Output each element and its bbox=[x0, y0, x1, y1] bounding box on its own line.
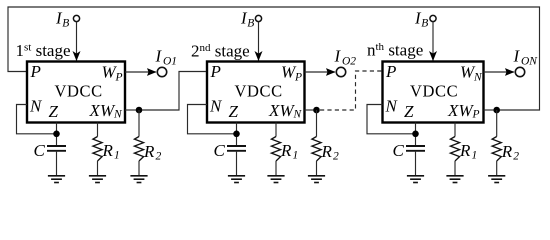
current source terminal I_B (stage 1) bbox=[73, 15, 79, 21]
ground (C stage 3) bbox=[407, 176, 424, 183]
capacitor C (stage 1) bbox=[47, 146, 66, 151]
svg-text:R: R bbox=[102, 141, 114, 160]
resistor R1 (stage 2) bbox=[271, 137, 280, 162]
svg-text:R: R bbox=[280, 141, 292, 160]
svg-text:R: R bbox=[459, 141, 471, 160]
svg-text:nth stage: nth stage bbox=[367, 41, 423, 60]
wire W_N output to terminal I_ON (stage 3) bbox=[484, 71, 514, 73]
svg-text:N: N bbox=[209, 97, 223, 116]
node Z junction (stage 3) bbox=[412, 131, 419, 138]
svg-text:P: P bbox=[472, 109, 480, 121]
ground (R2 stage 2) bbox=[308, 176, 325, 183]
svg-text:P: P bbox=[294, 72, 302, 84]
svg-text:P: P bbox=[385, 62, 396, 81]
node Z junction (stage 2) bbox=[233, 131, 240, 138]
svg-text:O1: O1 bbox=[163, 56, 177, 68]
svg-text:1st stage: 1st stage bbox=[16, 41, 71, 60]
capacitor C (stage 2) bbox=[227, 146, 246, 151]
ground (R2 stage 3) bbox=[488, 176, 505, 183]
wire stage1 W_N junction to stage2 P bbox=[142, 72, 206, 111]
wire N terminal loop to Z node (stage 2) bbox=[188, 105, 237, 134]
wire W_N output (stage 1) bbox=[125, 109, 139, 111]
wire feedback top (last stage W_P output to 1st stage P) bbox=[8, 7, 540, 110]
wire capacitor to ground (stage 3) bbox=[415, 151, 417, 176]
svg-text:C: C bbox=[214, 141, 226, 160]
svg-text:2: 2 bbox=[513, 151, 519, 163]
current source terminal I_B (stage 2) bbox=[255, 15, 261, 21]
svg-text:Z: Z bbox=[404, 102, 414, 121]
wire I_B to block top with arrow (stage 3) bbox=[432, 22, 434, 61]
svg-text:B: B bbox=[247, 18, 254, 30]
svg-text:X: X bbox=[268, 101, 280, 120]
wire W_N output (stage 2) bbox=[305, 109, 317, 111]
output terminal circle I_ON (stage 3) bbox=[515, 67, 524, 76]
svg-text:C: C bbox=[34, 141, 46, 160]
svg-text:2: 2 bbox=[333, 151, 339, 163]
wire I_B to block top with arrow (stage 2) bbox=[258, 22, 260, 61]
ground (R1 stage 3) bbox=[446, 176, 463, 183]
node W_P junction (stage 3) bbox=[493, 107, 500, 114]
svg-text:R: R bbox=[321, 142, 333, 161]
wire R2 to ground (stage 3) bbox=[496, 161, 498, 176]
ground (R1 stage 2) bbox=[267, 176, 284, 183]
resistor R2 (stage 2) bbox=[312, 137, 321, 162]
svg-text:P: P bbox=[210, 62, 221, 81]
svg-text:1: 1 bbox=[472, 150, 478, 162]
svg-text:N: N bbox=[29, 97, 43, 116]
ground (C stage 2) bbox=[228, 176, 245, 183]
wire capacitor to ground (stage 1) bbox=[56, 151, 58, 176]
ground (R1 stage 1) bbox=[89, 176, 106, 183]
wire X terminal down (stage 3) bbox=[454, 123, 456, 137]
wire R1 to ground (stage 1) bbox=[97, 161, 99, 176]
svg-text:N: N bbox=[113, 109, 123, 121]
wire W_P output to terminal I_O1 (stage 1) bbox=[125, 71, 156, 73]
svg-text:N: N bbox=[293, 109, 303, 121]
ground (C stage 1) bbox=[48, 176, 65, 183]
capacitor C (stage 3) bbox=[406, 146, 425, 151]
wire Z terminal down (stage 3) bbox=[415, 123, 417, 147]
resistor R1 (stage 1) bbox=[93, 137, 102, 162]
resistor R2 (stage 1) bbox=[134, 137, 143, 162]
svg-text:Z: Z bbox=[229, 102, 239, 121]
svg-text:N: N bbox=[385, 97, 399, 116]
svg-text:B: B bbox=[62, 18, 69, 30]
svg-text:VDCC: VDCC bbox=[55, 82, 103, 101]
current source terminal I_B (stage 3) bbox=[430, 15, 436, 21]
wire N terminal loop to Z node (stage 3) bbox=[367, 105, 416, 134]
wire I_B to block top with arrow (stage 1) bbox=[76, 22, 78, 61]
node Z junction (stage 1) bbox=[53, 131, 60, 138]
wire R2 to ground (stage 2) bbox=[316, 161, 318, 176]
svg-text:O2: O2 bbox=[342, 56, 356, 68]
svg-text:ON: ON bbox=[521, 56, 538, 68]
resistor R2 (stage 3) bbox=[492, 137, 501, 162]
svg-text:X: X bbox=[89, 101, 101, 120]
svg-text:B: B bbox=[421, 18, 428, 30]
wire X terminal down (stage 1) bbox=[97, 123, 99, 137]
wire junction down to R2 (stage 3) bbox=[496, 110, 498, 137]
op-amp U2 VDCC block stage 2 bbox=[207, 62, 305, 123]
wire R1 to ground (stage 2) bbox=[275, 161, 277, 176]
svg-text:VDCC: VDCC bbox=[410, 82, 458, 101]
svg-text:P: P bbox=[30, 62, 41, 81]
op-amp U1 VDCC block stage 1 bbox=[27, 62, 125, 123]
wire Z terminal down (stage 1) bbox=[56, 123, 58, 147]
node W_N junction (stage 1) bbox=[136, 107, 143, 114]
output terminal circle I_O2 (stage 2) bbox=[336, 67, 345, 76]
svg-text:R: R bbox=[143, 142, 155, 161]
node W_N junction (stage 2) bbox=[313, 107, 320, 114]
wire W_P output to terminal I_O2 (stage 2) bbox=[305, 71, 335, 73]
wire R2 to ground (stage 1) bbox=[138, 161, 140, 176]
wire W_P output (stage 3) bbox=[484, 109, 497, 111]
wire N terminal loop to Z node (stage 1) bbox=[17, 105, 57, 134]
wire junction down to R2 (stage 1) bbox=[138, 110, 140, 137]
svg-text:R: R bbox=[501, 142, 513, 161]
svg-text:1: 1 bbox=[114, 150, 120, 162]
svg-text:P: P bbox=[115, 72, 123, 84]
wire Z terminal down (stage 2) bbox=[236, 123, 238, 147]
op-amp U3 VDCC block stage 3 bbox=[383, 62, 484, 123]
svg-text:2: 2 bbox=[156, 151, 162, 163]
wire junction down to R2 (stage 2) bbox=[316, 110, 318, 137]
svg-text:C: C bbox=[393, 141, 405, 160]
svg-text:VDCC: VDCC bbox=[235, 82, 283, 101]
svg-text:Z: Z bbox=[49, 102, 59, 121]
svg-text:1: 1 bbox=[293, 150, 299, 162]
wire (dashed) stage2 W_N junction to n-th stage P bbox=[320, 71, 382, 110]
svg-text:X: X bbox=[447, 101, 459, 120]
wire capacitor to ground (stage 2) bbox=[236, 151, 238, 176]
resistor R1 (stage 3) bbox=[450, 137, 459, 162]
ground (R2 stage 1) bbox=[130, 176, 147, 183]
svg-text:N: N bbox=[473, 72, 483, 84]
output terminal circle I_O1 (stage 1) bbox=[157, 67, 166, 76]
wire X terminal down (stage 2) bbox=[275, 123, 277, 137]
wire R1 to ground (stage 3) bbox=[454, 161, 456, 176]
